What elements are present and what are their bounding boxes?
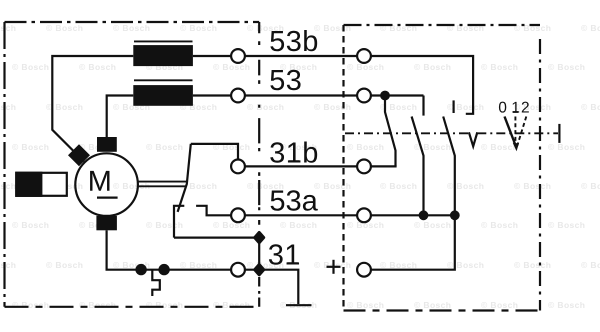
terminal 31/+ (switch) — [357, 263, 371, 277]
park contact (to ground rail) — [174, 206, 184, 238]
svg-text:© Bosch: © Bosch — [79, 300, 116, 310]
svg-text:© Bosch: © Bosch — [514, 102, 551, 112]
fixed contact stub (53, position 1) — [422, 96, 424, 116]
svg-text:© Bosch: © Bosch — [548, 142, 585, 152]
svg-text:© Bosch: © Bosch — [347, 142, 384, 152]
svg-text:© Bosch: © Bosch — [280, 220, 317, 230]
switch arm 1 (open) — [412, 117, 424, 216]
junction dot 53a/arm1 — [419, 210, 429, 220]
choke L2 (53 lead) — [133, 80, 193, 106]
svg-text:© Bosch: © Bosch — [0, 260, 16, 270]
svg-text:© Bosch: © Bosch — [548, 62, 585, 72]
thermal cutout (bimetal jog) — [152, 270, 160, 296]
svg-text:© Bosch: © Bosch — [380, 260, 417, 270]
park switch arm — [178, 144, 191, 212]
svg-text:© Bosch: © Bosch — [347, 300, 384, 310]
border junction (31 rail) — [255, 265, 264, 275]
svg-text:© Bosch: © Bosch — [414, 220, 451, 230]
actuator line (dashed mechanical) — [345, 132, 469, 134]
svg-text:© Bosch: © Bosch — [0, 23, 16, 33]
position labels 0 1 2 — [499, 102, 506, 113]
terminal 31b (switch) — [357, 160, 371, 174]
svg-text:© Bosch: © Bosch — [481, 220, 518, 230]
svg-text:© Bosch: © Bosch — [280, 62, 317, 72]
terminal 53a (motor) — [231, 208, 245, 222]
park switch arm feed wire to 31b — [191, 144, 238, 159]
svg-text:© Bosch: © Bosch — [12, 62, 49, 72]
label 31b — [270, 141, 317, 162]
svg-text:© Bosch: © Bosch — [113, 23, 150, 33]
svg-text:© Bosch: © Bosch — [548, 220, 585, 230]
wire 53a across — [245, 214, 357, 216]
svg-text:© Bosch: © Bosch — [0, 102, 16, 112]
motor label M — [90, 171, 109, 191]
border junction (park contact) — [255, 233, 264, 243]
junction dot 53a/arm2 — [450, 210, 460, 220]
motor unit boundary box (left, dash-dot) — [5, 22, 260, 307]
svg-text:© Bosch: © Bosch — [180, 260, 217, 270]
svg-text:© Bosch: © Bosch — [481, 62, 518, 72]
svg-text:© Bosch: © Bosch — [548, 300, 585, 310]
svg-text:© Bosch: © Bosch — [581, 260, 600, 270]
svg-text:© Bosch: © Bosch — [447, 181, 484, 191]
wire 31 rail (left box) — [106, 269, 232, 271]
label 31 — [269, 244, 299, 265]
battery plus sign — [327, 260, 341, 274]
label 53a — [271, 190, 318, 211]
svg-text:© Bosch: © Bosch — [213, 62, 250, 72]
terminal 53a (switch) — [357, 208, 371, 222]
ground (chassis) — [286, 304, 312, 306]
terminal 53 (switch) — [357, 89, 371, 103]
svg-text:© Bosch: © Bosch — [247, 260, 284, 270]
svg-text:© Bosch: © Bosch — [481, 142, 518, 152]
wire 53a rail — [371, 214, 455, 216]
wire 53 across — [245, 94, 357, 96]
svg-text:© Bosch: © Bosch — [314, 102, 351, 112]
svg-text:© Bosch: © Bosch — [146, 142, 183, 152]
wire 31b to arm pivot — [371, 165, 397, 167]
position pointer 0 (solid with arrow) — [505, 117, 517, 147]
svg-text:© Bosch: © Bosch — [481, 300, 518, 310]
wire 53b across — [245, 55, 357, 57]
wire between border junctions — [258, 238, 260, 270]
switch arm 2 (open) — [443, 117, 455, 216]
switch arm 0 (53 to 31b, closed) — [385, 96, 396, 167]
junction dot 53 — [380, 91, 390, 101]
svg-text:© Bosch: © Bosch — [46, 260, 83, 270]
wire 53b to fixed contact — [371, 56, 473, 114]
svg-text:© Bosch: © Bosch — [414, 300, 451, 310]
terminal 53 (motor) — [231, 89, 245, 103]
svg-text:© Bosch: © Bosch — [514, 181, 551, 191]
svg-text:© Bosch: © Bosch — [314, 181, 351, 191]
svg-text:© Bosch: © Bosch — [46, 23, 83, 33]
terminal 53b (motor) — [231, 49, 245, 63]
svg-text:© Bosch: © Bosch — [0, 181, 16, 191]
permanent magnet — [15, 172, 67, 197]
motor top brush — [97, 137, 117, 152]
svg-text:© Bosch: © Bosch — [247, 102, 284, 112]
motor bottom brush — [96, 216, 117, 231]
svg-text:© Bosch: © Bosch — [213, 300, 250, 310]
motor M1 body — [75, 153, 138, 216]
motor third brush (diamond) — [68, 144, 90, 166]
choke L1 (53b lead) — [133, 41, 193, 66]
wire 53b left: to motor third brush — [52, 56, 133, 162]
wire choke L2 to terminal 53 — [193, 94, 232, 96]
wire +31 up to 53a rail — [371, 215, 455, 269]
svg-text:© Bosch: © Bosch — [581, 102, 600, 112]
wire 31 to ground branch — [245, 270, 298, 304]
wire 31b across — [245, 165, 357, 167]
switch unit boundary box (right, dash-dot) — [344, 25, 541, 311]
spring return V — [469, 132, 477, 146]
svg-text:© Bosch: © Bosch — [380, 181, 417, 191]
label 53 — [270, 70, 300, 91]
wire choke L1 to terminal 53b — [193, 55, 232, 57]
svg-text:© Bosch: © Bosch — [79, 62, 116, 72]
position pointer 1 (dashed) — [514, 117, 516, 145]
park contact (to 53a) — [196, 206, 231, 216]
svg-text:© Bosch: © Bosch — [12, 300, 49, 310]
motor underline — [97, 197, 118, 199]
terminal 53b (switch) — [357, 49, 371, 63]
svg-text:© Bosch: © Bosch — [146, 300, 183, 310]
pointer arrowhead — [513, 143, 519, 152]
position pointer 2 (dashed) — [517, 117, 526, 146]
svg-text:© Bosch: © Bosch — [12, 142, 49, 152]
svg-text:© Bosch: © Bosch — [12, 220, 49, 230]
wire park ground contact to border junction — [174, 237, 256, 239]
wire 53 left: down to motor top brush — [107, 96, 134, 139]
junction dot — [158, 264, 169, 275]
svg-text:© Bosch: © Bosch — [447, 260, 484, 270]
svg-text:© Bosch: © Bosch — [146, 220, 183, 230]
terminal 31 (motor) — [231, 263, 245, 277]
svg-text:© Bosch: © Bosch — [414, 62, 451, 72]
svg-text:© Bosch: © Bosch — [581, 181, 600, 191]
label 53b — [270, 30, 317, 51]
svg-text:© Bosch: © Bosch — [247, 181, 284, 191]
manual actuation end bar — [558, 124, 560, 143]
svg-text:© Bosch: © Bosch — [514, 260, 551, 270]
wire bottom brush to 31 rail — [105, 230, 107, 269]
svg-text:© Bosch: © Bosch — [213, 220, 250, 230]
junction dot — [135, 264, 146, 275]
svg-text:© Bosch: © Bosch — [581, 23, 600, 33]
motor shaft (mechanical link, double line) — [138, 182, 187, 187]
wire 53 rail — [371, 94, 424, 96]
svg-text:© Bosch: © Bosch — [180, 23, 217, 33]
fixed contact stub (position 2) — [453, 100, 455, 113]
terminal 31b (motor) — [231, 160, 245, 174]
